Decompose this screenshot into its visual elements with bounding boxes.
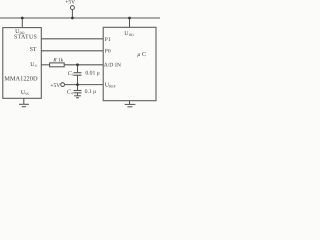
svg-text:A/DIN: A/DIN <box>104 63 121 69</box>
svg-text:ST: ST <box>30 47 37 53</box>
svg-text:P0: P0 <box>105 49 111 55</box>
svg-text:+5V: +5V <box>50 83 60 89</box>
svg-text:0.1 μ: 0.1 μ <box>85 89 97 95</box>
svg-text:P1: P1 <box>105 37 111 43</box>
svg-text:+5V: +5V <box>65 0 75 6</box>
svg-text:0: 0 <box>35 64 37 68</box>
svg-text:MMA1220D: MMA1220D <box>4 76 38 83</box>
svg-text:0.01 μ: 0.01 μ <box>85 71 99 77</box>
svg-text:μC: μC <box>137 52 146 58</box>
svg-text:R 1k: R 1k <box>52 58 63 64</box>
svg-text:STATUS: STATUS <box>14 35 37 41</box>
